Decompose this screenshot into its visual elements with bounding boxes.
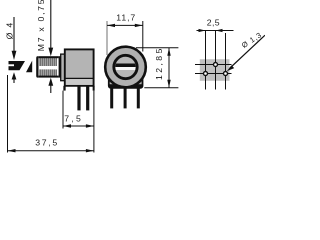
threaded bushing body with thread stripes [39, 56, 61, 77]
hole top center [214, 63, 218, 67]
dimension 2,5 [197, 18, 234, 33]
front view pin middle [124, 87, 127, 109]
lower arrow of thread dimension [48, 78, 53, 93]
hole bottom left [204, 72, 208, 76]
mounting flange [61, 54, 67, 81]
footprint grid horizontal lower [195, 73, 232, 75]
front view pin left [110, 87, 113, 109]
extension line left of 37,5 [7, 75, 9, 153]
lower arrow of Ø4 dimension [12, 72, 17, 83]
svg-text:2,5: 2,5 [207, 18, 220, 28]
front view pin right [137, 87, 140, 109]
extension line right shared by 7,5 and 37,5 [93, 91, 95, 153]
shaft cone tip [26, 61, 32, 73]
svg-text:11,7: 11,7 [116, 12, 136, 22]
front view: dimension 11,7 [107, 12, 143, 55]
body corner foot left [63, 86, 65, 91]
footprint grid horizontal upper [195, 64, 232, 66]
svg-text:12,85: 12,85 [154, 46, 164, 80]
dimension 7,5 [63, 114, 94, 128]
extension line left of 7,5 [62, 91, 64, 129]
shaft slot end (black quad with slot) [9, 61, 26, 70]
footprint grid vertical left [205, 31, 207, 90]
side view body [65, 49, 94, 85]
svg-text:Ø 4: Ø 4 [5, 21, 15, 39]
threaded bushing left cap [36, 56, 38, 77]
footprint grid vertical right [225, 33, 227, 90]
dimension 37,5 [8, 138, 94, 153]
knob inner ring [114, 55, 137, 78]
leader arrow for Ø 1,3 hole diameter [227, 35, 265, 71]
pcb footprint pad field [200, 59, 230, 81]
front view body [109, 54, 143, 88]
screwdriver slot [114, 64, 137, 71]
leader arrow for Ø4 [12, 17, 17, 60]
body corner foot right [93, 86, 95, 91]
leader arrow for M7 thread [48, 0, 53, 56]
dimension 12,85 [136, 46, 178, 87]
knob outer circle [105, 47, 146, 88]
front view bottom edge [109, 84, 142, 88]
svg-text:7,5: 7,5 [64, 114, 83, 124]
side view pin 2 [86, 86, 89, 111]
hole bottom right [224, 72, 228, 76]
footprint grid vertical center [215, 31, 217, 90]
svg-text:37,5: 37,5 [35, 138, 59, 148]
svg-text:M7 x 0,75: M7 x 0,75 [36, 0, 46, 51]
side view pin 1 [77, 86, 80, 111]
